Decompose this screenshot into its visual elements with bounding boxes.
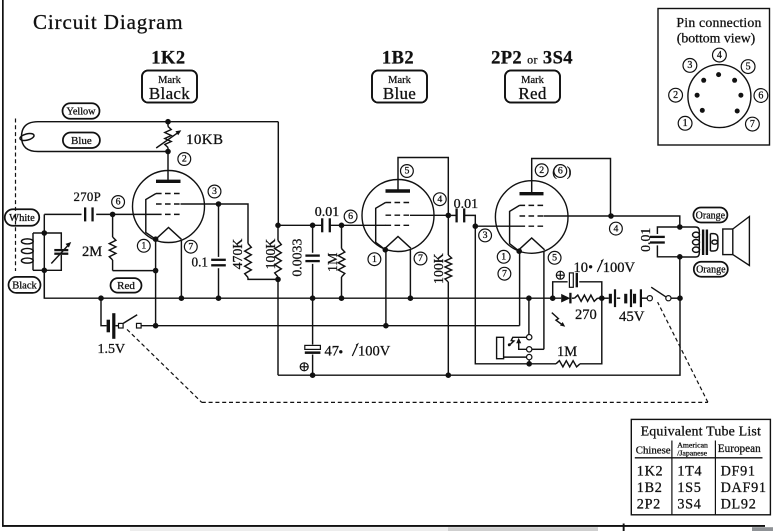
svg-text:1.5V: 1.5V xyxy=(98,342,126,357)
svg-text:100K: 100K xyxy=(431,253,446,284)
svg-text:7: 7 xyxy=(750,119,755,130)
svg-text:10KB: 10KB xyxy=(186,132,223,148)
svg-text:Black: Black xyxy=(149,84,190,103)
svg-text:1K2: 1K2 xyxy=(637,463,664,479)
svg-text:100V: 100V xyxy=(603,260,636,276)
svg-text:4: 4 xyxy=(613,223,618,234)
svg-text:2: 2 xyxy=(539,165,544,176)
svg-text:(bottom view): (bottom view) xyxy=(677,31,756,47)
svg-text:White: White xyxy=(9,213,35,224)
svg-text:4: 4 xyxy=(437,194,442,205)
svg-text:1: 1 xyxy=(683,118,688,129)
svg-text:1B2: 1B2 xyxy=(637,480,663,496)
svg-text:6: 6 xyxy=(558,166,563,177)
svg-text:5: 5 xyxy=(552,252,557,263)
svg-text:6: 6 xyxy=(758,90,763,101)
svg-text:DL92: DL92 xyxy=(721,496,757,512)
svg-text:6: 6 xyxy=(348,211,353,222)
svg-text:Pin connection: Pin connection xyxy=(676,15,761,30)
svg-text:100V: 100V xyxy=(358,343,391,359)
svg-text:DAF91: DAF91 xyxy=(721,480,767,496)
svg-text:5: 5 xyxy=(746,61,751,72)
svg-text:3: 3 xyxy=(212,186,217,197)
svg-text:1: 1 xyxy=(141,240,146,251)
svg-text:DF91: DF91 xyxy=(721,463,756,479)
svg-text:Blue: Blue xyxy=(71,135,92,147)
svg-text:Blue: Blue xyxy=(383,84,416,103)
svg-text:3: 3 xyxy=(687,60,692,71)
svg-text:2: 2 xyxy=(673,90,678,101)
svg-text:/Japanese: /Japanese xyxy=(677,449,707,458)
svg-text:): ) xyxy=(567,165,572,180)
svg-text:6: 6 xyxy=(116,197,121,208)
svg-text:7: 7 xyxy=(188,241,193,252)
svg-text:1M: 1M xyxy=(326,252,341,272)
svg-text:47: 47 xyxy=(325,343,340,359)
svg-text:Equivalent Tube List: Equivalent Tube List xyxy=(641,424,761,439)
svg-text:1S5: 1S5 xyxy=(677,480,701,496)
svg-text:5: 5 xyxy=(404,166,409,177)
svg-text:Red: Red xyxy=(117,280,135,292)
svg-text:Circuit Diagram: Circuit Diagram xyxy=(33,10,184,34)
svg-text:470K: 470K xyxy=(230,239,245,270)
svg-text:3S4: 3S4 xyxy=(677,496,701,512)
svg-text:Black: Black xyxy=(12,280,37,291)
svg-text:4: 4 xyxy=(717,50,722,61)
svg-text:Yellow: Yellow xyxy=(67,106,97,117)
svg-text:0.0033: 0.0033 xyxy=(289,239,304,277)
svg-text:270: 270 xyxy=(575,307,597,323)
svg-text:Orange: Orange xyxy=(696,265,726,276)
svg-text:1T4: 1T4 xyxy=(677,463,702,479)
svg-text:0.1: 0.1 xyxy=(192,254,208,269)
svg-text:7: 7 xyxy=(502,268,507,279)
svg-text:Chinese: Chinese xyxy=(636,445,671,457)
svg-text:European: European xyxy=(718,443,761,455)
svg-text:45V: 45V xyxy=(619,309,645,325)
svg-text:2P2: 2P2 xyxy=(637,496,661,512)
svg-text:100K: 100K xyxy=(263,239,278,270)
svg-text:2: 2 xyxy=(182,154,187,165)
svg-text:3: 3 xyxy=(483,230,488,241)
svg-text:0.01: 0.01 xyxy=(315,205,340,220)
svg-text:1B2: 1B2 xyxy=(382,49,414,69)
svg-text:7: 7 xyxy=(418,253,423,264)
svg-text:1: 1 xyxy=(501,251,506,262)
svg-text:10: 10 xyxy=(574,260,589,276)
svg-text:1: 1 xyxy=(372,254,377,265)
svg-text:270P: 270P xyxy=(74,190,102,204)
svg-text:Red: Red xyxy=(518,84,546,103)
svg-text:2M: 2M xyxy=(82,244,102,260)
svg-text:1M: 1M xyxy=(557,344,577,360)
svg-text:1K2: 1K2 xyxy=(151,49,185,69)
svg-text:Orange: Orange xyxy=(696,210,726,221)
svg-text:0.01: 0.01 xyxy=(454,197,479,212)
svg-text:0.01: 0.01 xyxy=(638,228,653,252)
